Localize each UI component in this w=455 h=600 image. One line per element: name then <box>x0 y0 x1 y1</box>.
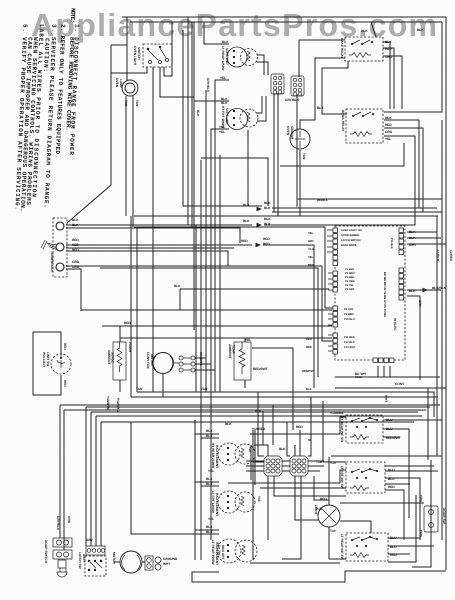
svg-text:RED: RED <box>241 239 248 243</box>
wire bus y227 <box>134 227 333 308</box>
svg-text:BLU: BLU <box>388 468 395 472</box>
svg-text:BLK: BLK <box>243 203 250 207</box>
svg-text:YEL: YEL <box>308 256 314 259</box>
wire erc bottom pins down <box>378 366 390 377</box>
svg-text:BLK: BLK <box>279 447 286 451</box>
wire y445 <box>254 444 264 446</box>
svg-text:RED: RED <box>306 338 312 341</box>
svg-text:WH/BLK: WH/BLK <box>317 199 328 202</box>
wire resistor1 leads <box>119 326 121 392</box>
oven temp resistor <box>228 338 268 380</box>
svg-text:BLK: BLK <box>385 40 392 44</box>
svg-text:LT REAR 1250W: LT REAR 1250W <box>221 46 225 71</box>
erc fan labels lower <box>344 238 393 349</box>
wire relay1 left pin to relay2 <box>322 61 348 114</box>
svg-text:RT REAR INF SW: RT REAR INF SW <box>340 416 344 442</box>
wire connA down to bus <box>274 93 278 216</box>
svg-text:BLK: BLK <box>206 530 213 534</box>
wire band y392 <box>137 392 434 417</box>
surface unit 1 (LT REAR) <box>220 40 258 80</box>
svg-text:RED: RED <box>320 497 327 501</box>
wire band y416 <box>91 412 422 416</box>
svg-text:BLK: BLK <box>174 284 181 288</box>
svg-text:WHT: WHT <box>384 395 388 402</box>
svg-text:AMBIENT: AMBIENT <box>107 350 111 365</box>
svg-text:GRY/BLK: GRY/BLK <box>285 98 300 102</box>
wire vertical x188 <box>187 17 189 225</box>
wire burner1 to connA <box>257 55 268 72</box>
svg-text:RAD ELEMENT: RAD ELEMENT <box>215 445 219 468</box>
wire band y397 <box>131 396 438 398</box>
svg-text:GRY: GRY <box>308 240 314 243</box>
wire band y405 <box>60 404 440 406</box>
wire vertical x183 <box>183 30 262 392</box>
svg-text:AMBIENT: AMBIENT <box>228 344 232 359</box>
svg-text:BLK: BLK <box>72 223 79 227</box>
wire relay2 down x404 <box>280 143 404 166</box>
wire vertical x220 <box>219 155 221 392</box>
wire q4 vert x314 <box>314 476 329 500</box>
relay box 1 <box>340 37 393 61</box>
svg-text:WH/ORG: WH/ORG <box>199 352 203 366</box>
svg-text:SURF UNIT: SURF UNIT <box>225 108 229 125</box>
svg-text:P12 BLK: P12 BLK <box>344 341 355 344</box>
ambient resistor <box>107 342 132 380</box>
svg-text:Y10: Y10 <box>248 446 252 452</box>
svg-text:LTD 700: LTD 700 <box>217 543 221 555</box>
wire sw2 outs <box>385 466 438 540</box>
svg-text:T10: T10 <box>330 529 336 533</box>
svg-text:BLK: BLK <box>264 201 271 205</box>
svg-text:ORG: ORG <box>385 130 393 134</box>
svg-text:BK WH: BK WH <box>355 372 366 376</box>
svg-text:ORG: ORG <box>419 495 423 503</box>
wire left door verticals <box>60 405 64 550</box>
svg-text:CONV: CONV <box>355 376 363 379</box>
svg-text:LT FRT 1200W: LT FRT 1200W <box>211 491 215 513</box>
oven light switch box <box>133 44 172 67</box>
svg-text:AppliancePartsPros.com: AppliancePartsPros.com <box>31 7 437 43</box>
splice on P15 wire <box>423 288 429 292</box>
svg-text:RED/PWT: RED/PWT <box>386 436 401 440</box>
wire burner2 to connA gap <box>257 96 266 121</box>
svg-text:P9 BRN: P9 BRN <box>344 313 354 316</box>
wire relay2 out right loop1 <box>272 120 419 208</box>
svg-text:HI ELEC: HI ELEC <box>393 318 397 331</box>
svg-text:P3 RED: P3 RED <box>345 276 354 279</box>
wire right border drop from line2 <box>384 22 442 112</box>
svg-text:P4 ORG: P4 ORG <box>345 280 355 283</box>
svg-text:CONV FAN: CONV FAN <box>146 352 150 369</box>
wire y377 <box>335 376 440 378</box>
svg-text:RED: RED <box>308 264 314 267</box>
wire relay2 out right loop3 <box>264 136 415 225</box>
svg-text:BLK: BLK <box>361 29 368 33</box>
svg-text:BROIL RELAY: BROIL RELAY <box>341 110 345 132</box>
wire burner1 top feed <box>201 22 268 540</box>
erc left stub wires group2 <box>328 273 333 290</box>
svg-text:LT FRT INF SW: LT FRT INF SW <box>340 466 344 489</box>
svg-text:RED: RED <box>72 243 79 247</box>
svg-text:SENSOR: SENSOR <box>290 126 294 140</box>
svg-text:RED: RED <box>390 553 397 557</box>
svg-text:ASSY: ASSY <box>82 554 86 564</box>
wire terminal3 right <box>66 266 333 341</box>
svg-text:ORG: ORG <box>385 55 393 59</box>
svg-text:BLK: BLK <box>206 525 213 529</box>
wire bus y289 <box>180 289 329 310</box>
svg-text:BLK: BLK <box>225 422 232 426</box>
wire lamp2 leads <box>329 457 346 559</box>
extra wire labels <box>106 28 453 559</box>
splice 3 <box>241 237 270 247</box>
wire sensor feed <box>300 58 345 129</box>
svg-text:RAD ELEMENT: RAD ELEMENT <box>215 493 219 516</box>
svg-text:DOOR SW/BRL: DOOR SW/BRL <box>341 234 360 237</box>
svg-text:BLU: BLU <box>390 536 397 540</box>
wire burner1 yel down <box>215 80 229 392</box>
svg-text:P15 BLK: P15 BLK <box>390 238 393 249</box>
wire y456 <box>331 455 442 457</box>
svg-text:Y10: Y10 <box>330 461 336 465</box>
svg-text:BLK: BLK <box>409 289 416 293</box>
door switch right <box>419 495 446 532</box>
wire relay1 outs chain <box>383 42 402 109</box>
svg-text:T1B: T1B <box>316 460 323 464</box>
svg-text:ORG: ORG <box>419 530 423 538</box>
svg-text:RED: RED <box>306 346 312 349</box>
svg-text:P5 YEL: P5 YEL <box>345 284 354 287</box>
svg-text:MOTOR: MOTOR <box>150 354 154 367</box>
erc left stub wires group1 <box>327 230 333 252</box>
wire bus y319 <box>102 325 332 327</box>
wire y483 long <box>228 470 346 483</box>
svg-text:BLK: BLK <box>206 429 213 433</box>
q4 radiant element 3 <box>206 525 257 565</box>
grounding small <box>155 557 178 570</box>
svg-text:BLK: BLK <box>221 101 228 105</box>
svg-text:MOTOR: MOTOR <box>112 552 116 565</box>
q4 radiant element 2 <box>206 477 255 521</box>
wire connB top to relay1 <box>299 40 345 77</box>
wire rollout loop <box>33 332 61 395</box>
svg-text:CONV: CONV <box>395 382 405 386</box>
svg-text:GRD: GRD <box>72 260 80 264</box>
oven lamp <box>115 78 139 107</box>
wire connC-D link <box>246 430 324 485</box>
oven sensor <box>286 126 310 160</box>
wire bus y337 <box>120 337 332 339</box>
svg-text:OVEN: OVEN <box>286 126 290 136</box>
svg-text:BLK: BLK <box>222 40 229 44</box>
svg-text:RED: RED <box>296 425 303 429</box>
svg-text:BLK: BLK <box>317 106 324 110</box>
wire burner2 yel down <box>211 129 229 540</box>
svg-text:TERM BLOCK: TERM BLOCK <box>50 251 54 273</box>
wire band y401 <box>86 406 430 408</box>
wire connD down <box>282 476 318 559</box>
svg-text:P10 BLU: P10 BLU <box>344 318 355 321</box>
wire burner feeds q4 row2 <box>195 482 219 486</box>
erc left stub wires group4 <box>328 335 333 351</box>
svg-text:RED: RED <box>124 321 131 325</box>
wire q4 lower右 <box>388 460 431 567</box>
wire lamp left lead down <box>125 96 127 216</box>
wire relay2 out right loop2 <box>272 128 423 212</box>
svg-text:SENSE: SENSE <box>111 352 115 363</box>
svg-text:BK WH RD OR YL BN GY PU TN BU: BK WH RD OR YL BN GY PU TN BU <box>383 272 386 317</box>
wire resistor2 right link <box>245 338 293 430</box>
svg-text:BLK: BLK <box>264 217 271 221</box>
wire vertical x130 lower <box>130 216 132 397</box>
wire bottom y563 <box>250 562 340 564</box>
svg-text:TAN: TAN <box>302 153 306 160</box>
caution note text block (rotated) <box>13 8 80 212</box>
svg-text:BLK/BLK: BLK/BLK <box>432 286 447 290</box>
wire light switch pin2 down <box>152 67 154 392</box>
convection fan motor <box>146 352 203 374</box>
svg-text:TAN: TAN <box>136 387 143 391</box>
door switch stack <box>44 516 72 577</box>
svg-text:P2 WHT: P2 WHT <box>345 272 355 275</box>
wire right vert x441 <box>441 120 443 540</box>
wire erc low right <box>407 296 420 380</box>
svg-text:ROLLOUT: ROLLOUT <box>42 352 46 367</box>
svg-text:BAKE BROIL: BAKE BROIL <box>341 244 358 247</box>
svg-text:L2/RED: L2/RED <box>449 250 453 262</box>
svg-text:LIMIT SW: LIMIT SW <box>46 352 50 366</box>
svg-text:P1B: P1B <box>316 507 323 511</box>
svg-text:NOTE:: NOTE: <box>69 8 77 23</box>
wire q4 vert x311 <box>273 397 346 462</box>
connector A (8 pin) <box>271 74 284 94</box>
svg-text:OVEN: OVEN <box>115 78 119 88</box>
wire mid verticals to band <box>195 420 201 534</box>
wire band y409 <box>64 409 426 411</box>
svg-text:BLK: BLK <box>306 388 312 391</box>
svg-text:RED: RED <box>263 242 270 246</box>
svg-text:OVEN LIGHT ON: OVEN LIGHT ON <box>341 229 362 232</box>
svg-text:BLU: BLU <box>386 427 393 431</box>
svg-text:BLK: BLK <box>409 236 416 240</box>
svg-text:RED: RED <box>385 123 392 127</box>
wire top line 2 <box>130 21 442 23</box>
erc left stub wires group3 <box>328 308 333 325</box>
wire bus y312 <box>81 309 332 311</box>
wire sensor down to bus <box>299 150 301 216</box>
svg-text:DOOR SW: DOOR SW <box>442 508 446 524</box>
relay box 2 <box>341 109 393 143</box>
svg-text:P6/WH: P6/WH <box>128 342 132 353</box>
svg-text:Y10/BRN: Y10/BRN <box>330 411 344 415</box>
svg-text:P12/ORG: P12/ORG <box>116 398 120 412</box>
wire lamp right lead down <box>132 96 134 227</box>
svg-text:Y1-0: Y1-0 <box>308 248 314 251</box>
svg-text:Y10/BRN: Y10/BRN <box>106 396 110 410</box>
svg-text:YEL: YEL <box>245 338 251 342</box>
wire q4 y462 stub <box>253 461 264 463</box>
infinite switch 1 <box>330 411 401 443</box>
rollout limit switch <box>42 343 71 387</box>
svg-text:GRY: GRY <box>418 300 422 308</box>
svg-text:BLK: BLK <box>417 28 424 32</box>
svg-text:YEL: YEL <box>208 469 214 473</box>
wire y199 <box>297 198 442 200</box>
terminal block <box>41 218 80 277</box>
svg-text:BLU: BLU <box>390 545 397 549</box>
svg-text:LATCH SWITCH: LATCH SWITCH <box>341 239 361 242</box>
wire bus y216 <box>134 215 438 217</box>
wire erc right pins out <box>407 232 446 290</box>
connector D <box>252 427 308 476</box>
svg-text:P6 GRY: P6 GRY <box>345 288 355 291</box>
svg-text:YEL: YEL <box>220 76 226 80</box>
wire burner feeds q4 row3 <box>195 530 219 560</box>
q4 radiant element 1 <box>206 429 255 473</box>
svg-text:GROUND: GROUND <box>163 557 178 561</box>
wire y388 <box>335 387 446 389</box>
svg-text:RED: RED <box>263 237 270 241</box>
wire motor stack links <box>195 358 215 370</box>
svg-text:BLU: BLU <box>386 418 393 422</box>
svg-text:LT REAR 2500W: LT REAR 2500W <box>211 540 215 565</box>
connector C <box>264 456 282 476</box>
svg-text:DOOR SWITCH: DOOR SWITCH <box>44 540 48 564</box>
svg-text:T10: T10 <box>257 496 261 502</box>
svg-text:RED: RED <box>385 47 392 51</box>
svg-text:GRY/BLK: GRY/BLK <box>206 78 210 93</box>
svg-text:BAKE RELAY: BAKE RELAY <box>340 38 344 59</box>
svg-text:RED: RED <box>72 248 79 252</box>
wire top line 1 <box>122 16 446 18</box>
infinite switch 3 <box>330 529 397 561</box>
wire motor bottom lead <box>162 374 164 397</box>
svg-text:RED: RED <box>72 238 79 242</box>
svg-text:YEL: YEL <box>219 130 225 134</box>
wire sw1 outs <box>383 420 442 518</box>
svg-text:RED/PWT: RED/PWT <box>302 370 315 373</box>
wire splice1 feed vertical <box>247 130 249 206</box>
wire burner feeds q4 row1 <box>195 434 219 438</box>
splice 1 <box>243 201 271 211</box>
wire right vert x438 <box>436 216 438 456</box>
wire connA top links <box>264 72 268 75</box>
svg-text:TEMP: TEMP <box>232 345 236 355</box>
svg-text:BLK: BLK <box>409 230 416 234</box>
svg-text:TAN: TAN <box>135 100 139 107</box>
wire connB down <box>296 94 298 207</box>
svg-text:LATCH SW: LATCH SW <box>78 552 82 569</box>
splice 2 <box>243 217 271 227</box>
svg-text:P13 WHT: P13 WHT <box>344 346 356 349</box>
ERC control board <box>302 199 447 391</box>
wire nested corners <box>419 208 442 212</box>
wire vertical x206 <box>205 90 207 392</box>
svg-text:BLK: BLK <box>206 482 213 486</box>
svg-text:P11 RED: P11 RED <box>344 336 355 339</box>
svg-text:LAMP: LAMP <box>119 79 123 89</box>
wire door sw right leads <box>340 503 431 545</box>
wire y488 <box>260 487 346 489</box>
svg-text:RED: RED <box>388 485 395 489</box>
svg-text:RED: RED <box>63 380 67 387</box>
wire burner2 top feed <box>194 22 229 330</box>
wire connC down <box>268 476 346 540</box>
wire lamp feed <box>126 17 128 80</box>
svg-text:L1/BLK: L1/BLK <box>436 250 440 262</box>
svg-text:BLK: BLK <box>206 477 213 481</box>
svg-text:BLK: BLK <box>255 409 262 413</box>
wire q4 vert x287 <box>287 422 290 456</box>
svg-text:SWITCH: SWITCH <box>137 47 141 60</box>
svg-text:P8 TAN: P8 TAN <box>344 308 353 311</box>
wire terminal2 fan <box>66 245 252 266</box>
connector B (8 pin) <box>291 76 304 96</box>
infinite switch 2 <box>330 461 395 493</box>
svg-text:BLK: BLK <box>196 110 200 117</box>
wire bottom border <box>192 571 446 582</box>
wire q4 left rect <box>131 422 219 534</box>
wire blower leads <box>114 561 145 563</box>
wire vertical x143 lower <box>136 227 138 392</box>
svg-text:BLK: BLK <box>264 222 271 226</box>
blower motor <box>112 551 142 573</box>
svg-text:WHT: WHT <box>409 243 416 247</box>
wire q4 vert x258 <box>258 392 264 456</box>
wire light switch pin1 to terminal <box>67 45 147 223</box>
svg-text:RED/PWT: RED/PWT <box>253 367 268 371</box>
wire band y422 <box>101 421 414 423</box>
svg-text:P1 BLK: P1 BLK <box>345 268 354 271</box>
svg-text:BLK: BLK <box>385 116 392 120</box>
wire relay1 top diagonal feed <box>371 22 376 37</box>
svg-text:OVEN LIGHT: OVEN LIGHT <box>133 46 137 66</box>
wire bus y268 <box>100 268 318 377</box>
svg-text:V10/RED: V10/RED <box>252 427 266 431</box>
wire light switch pin3 <box>160 22 194 97</box>
svg-text:GRY: GRY <box>86 538 94 542</box>
svg-text:SURF UNIT: SURF UNIT <box>225 48 229 65</box>
svg-text:TAN: TAN <box>201 387 208 391</box>
svg-text:BLU: BLU <box>388 477 395 481</box>
thermal fuse small <box>145 556 153 570</box>
surface unit 2 (RT FRT) <box>219 97 258 134</box>
svg-text:YEL: YEL <box>219 125 225 129</box>
erc left outside labels <box>302 199 328 391</box>
svg-text:RED: RED <box>63 343 67 350</box>
latch switch assy <box>78 538 106 576</box>
svg-text:ORG: ORG <box>67 516 71 524</box>
wire latch bundle <box>86 407 101 546</box>
svg-text:YEL: YEL <box>385 137 391 141</box>
svg-text:BLK: BLK <box>264 206 271 210</box>
wire vertical x192 <box>191 22 193 227</box>
wire splice3 out <box>263 245 428 460</box>
wire sw3 outs <box>388 538 434 554</box>
wire terminal1 right pair <box>66 225 252 243</box>
wire y434 <box>250 417 346 434</box>
wire q4 vert x263 <box>263 411 268 456</box>
svg-text:WHT: WHT <box>163 562 170 566</box>
oven lamp 2 <box>314 497 340 527</box>
svg-text:BLK: BLK <box>243 219 250 223</box>
svg-text:GRY/BLK: GRY/BLK <box>56 516 60 531</box>
svg-text:TAN: TAN <box>124 100 128 107</box>
svg-text:YEL: YEL <box>308 232 314 235</box>
svg-text:BLK: BLK <box>206 434 213 438</box>
wire right border <box>445 17 447 570</box>
wire q4 x253 <box>252 430 254 560</box>
